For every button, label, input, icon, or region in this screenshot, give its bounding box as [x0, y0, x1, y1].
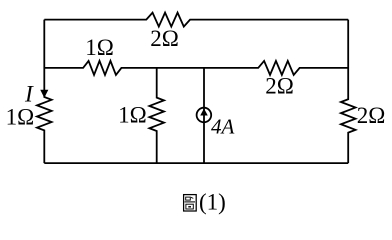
svg-text:2Ω: 2Ω [265, 73, 294, 98]
svg-text:4A: 4A [211, 114, 235, 138]
svg-text:1Ω: 1Ω [6, 104, 35, 129]
svg-text:I: I [24, 81, 34, 107]
svg-text:2Ω: 2Ω [150, 26, 179, 51]
svg-text:1Ω: 1Ω [118, 103, 147, 128]
svg-text:2Ω: 2Ω [357, 103, 386, 128]
svg-text:(1): (1) [199, 189, 226, 214]
svg-text:1Ω: 1Ω [85, 35, 114, 60]
